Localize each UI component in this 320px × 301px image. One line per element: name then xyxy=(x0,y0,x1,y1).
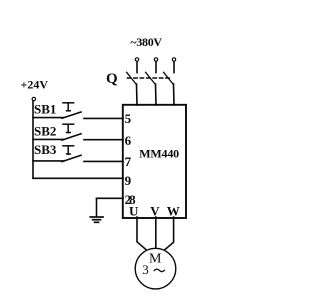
svg-text:Q: Q xyxy=(106,71,118,87)
svg-text:+24V: +24V xyxy=(21,77,49,91)
svg-text:SB2: SB2 xyxy=(34,123,56,138)
svg-text:7: 7 xyxy=(125,154,132,169)
svg-text:SB3: SB3 xyxy=(34,142,57,157)
svg-text:3: 3 xyxy=(142,262,149,277)
svg-text:6: 6 xyxy=(125,133,132,148)
svg-text:9: 9 xyxy=(125,173,132,188)
svg-text:MM440: MM440 xyxy=(139,146,179,160)
svg-text:V: V xyxy=(150,203,160,218)
svg-text:W: W xyxy=(167,203,180,218)
svg-text:~380V: ~380V xyxy=(130,35,162,49)
svg-text:M: M xyxy=(149,251,162,266)
svg-text:U: U xyxy=(129,203,139,218)
svg-text:SB1: SB1 xyxy=(34,101,56,116)
svg-text:5: 5 xyxy=(125,111,132,126)
